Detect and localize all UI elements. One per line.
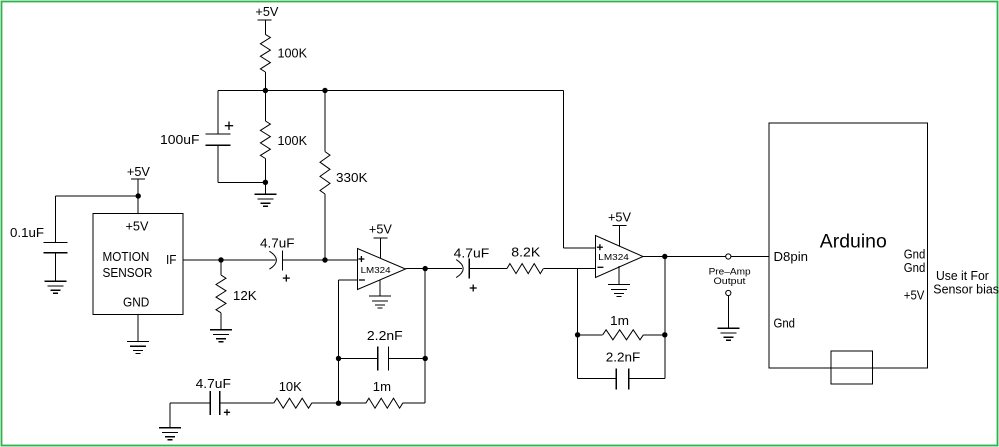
node fb2 left 1m junction bbox=[575, 332, 580, 337]
wire U1 ground stem bbox=[379, 280, 381, 296]
svg-text:100uF: 100uF bbox=[160, 132, 200, 147]
node fb2 right 1m junction bbox=[662, 332, 667, 337]
svg-text:MOTION: MOTION bbox=[103, 249, 150, 264]
svg-text:2.2nF: 2.2nF bbox=[606, 349, 641, 364]
svg-text:Gnd: Gnd bbox=[774, 315, 796, 330]
wire C6 to 8.2K bbox=[469, 268, 507, 270]
wire 1m2 row right bbox=[643, 334, 664, 336]
wire right vertical drop to op-amp U2 bbox=[562, 91, 564, 249]
svg-text:LM324: LM324 bbox=[598, 252, 629, 262]
terminal circle (output ground ref) bbox=[726, 290, 731, 295]
wire U2 output to terminal circle bbox=[643, 256, 726, 258]
wire 12K bottom stem bbox=[220, 313, 222, 330]
plus marker U1 bbox=[358, 256, 364, 262]
wire sensor gnd stem bbox=[137, 314, 139, 341]
resistor R5 10K bbox=[274, 398, 312, 408]
wire bus to 330K bbox=[324, 91, 326, 152]
wire bottom-left gnd stem bbox=[169, 403, 171, 428]
resistor R8 1m (U2 feedback) bbox=[603, 330, 644, 340]
node U2 output junction bbox=[662, 254, 667, 259]
node sensor supply junction bbox=[136, 193, 141, 198]
wire 8.2K to U2 - input bbox=[543, 268, 595, 270]
svg-text:100K: 100K bbox=[278, 133, 308, 148]
wire C3 to bias node bbox=[282, 259, 325, 261]
node divider bottom junction bbox=[263, 180, 268, 185]
svg-text:+5V: +5V bbox=[255, 4, 278, 19]
svg-text:8.2K: 8.2K bbox=[511, 245, 540, 260]
plus marker U2 bbox=[597, 244, 603, 250]
svg-text:4.7uF: 4.7uF bbox=[260, 235, 295, 250]
svg-text:Gnd: Gnd bbox=[904, 260, 926, 275]
ground (output ref) bbox=[717, 328, 739, 340]
wire top bus right bbox=[325, 90, 563, 92]
wire feedback left vertical (U1) bbox=[338, 280, 340, 403]
wire 1m2 row left bbox=[578, 334, 603, 336]
motion sensor box U3 bbox=[93, 214, 183, 315]
svg-text:4.7uF: 4.7uF bbox=[454, 245, 490, 260]
power terminal +5V (U2) bbox=[608, 210, 631, 246]
wire bus down to capacitor C1 bbox=[217, 91, 219, 135]
wire bus to R2 bbox=[264, 91, 266, 122]
wire top bus middle bbox=[265, 90, 325, 92]
ground (12K) bbox=[210, 330, 232, 342]
polarity plus of C1 bbox=[225, 122, 233, 130]
wire 12K top stem bbox=[220, 260, 222, 275]
svg-text:1m: 1m bbox=[610, 313, 629, 328]
wire terminal to Arduino D8pin bbox=[731, 256, 769, 258]
wire R3 down to input node bbox=[324, 194, 326, 260]
resistor R1 100K (top) bbox=[260, 34, 270, 72]
svg-text:1m: 1m bbox=[373, 379, 391, 394]
ground (U1) bbox=[369, 296, 391, 308]
svg-text:12K: 12K bbox=[233, 288, 257, 303]
wire C1 to divider bottom bbox=[218, 181, 265, 183]
wire C5 to 10K bbox=[220, 402, 274, 404]
wire output vertical down (U1 feedback) bbox=[424, 269, 426, 404]
wire output gnd stem bbox=[727, 296, 729, 329]
ground (U2) bbox=[608, 285, 630, 297]
wire junction into sensor box bbox=[137, 196, 139, 214]
svg-text:SENSOR: SENSOR bbox=[103, 265, 153, 280]
capacitor C5 4.7uF plates (bottom) bbox=[210, 391, 220, 415]
resistor R6 1m (U1 feedback) bbox=[366, 398, 403, 408]
wire bottom row: gnd corner to C5 bbox=[170, 402, 210, 404]
capacitor C6 4.7uF (interstage, polarized) bbox=[456, 259, 469, 279]
wire 1m to output vertical bbox=[403, 402, 426, 404]
wire 2.2nF2 row right bbox=[629, 378, 665, 380]
capacitor C3 4.7uF (coupling, polarized) bbox=[269, 250, 282, 270]
capacitor C2 0.1uF plates bbox=[44, 243, 68, 253]
minus marker U1 bbox=[359, 279, 365, 281]
power terminal +5V (U1) bbox=[369, 221, 392, 258]
svg-text:2.2nF: 2.2nF bbox=[367, 328, 403, 343]
svg-text:10K: 10K bbox=[279, 379, 302, 394]
svg-text:LM324: LM324 bbox=[361, 265, 391, 275]
svg-text:+5V: +5V bbox=[904, 288, 925, 303]
wire into + input of U2 bbox=[563, 247, 595, 249]
node fb left 2.2nF junction bbox=[336, 356, 341, 361]
svg-text:Output: Output bbox=[714, 276, 747, 286]
wire bottom node to 1m bbox=[339, 402, 366, 404]
svg-text:0.1uF: 0.1uF bbox=[10, 225, 44, 240]
wire bypass cap top stem bbox=[55, 196, 57, 243]
usb connector rectangle bbox=[831, 351, 873, 384]
wire R1 to bus bbox=[264, 72, 266, 91]
svg-text:+5V: +5V bbox=[126, 219, 149, 234]
wire top bus left bbox=[218, 90, 265, 92]
wire 2.2nF row right bbox=[389, 358, 426, 360]
node fb right 2.2nF junction bbox=[423, 356, 428, 361]
svg-text:4.7uF: 4.7uF bbox=[196, 376, 231, 391]
svg-text:Sensor bias: Sensor bias bbox=[933, 281, 999, 296]
resistor R7 8.2K bbox=[507, 264, 543, 274]
svg-text:+5V: +5V bbox=[608, 210, 631, 225]
power terminal +5V (top, R1) bbox=[255, 4, 278, 34]
wire U2 output feedback vertical bbox=[664, 257, 666, 379]
svg-text:100K: 100K bbox=[278, 45, 308, 60]
op-amp U1 LM324 bbox=[358, 249, 406, 290]
node bus-330K junction bbox=[322, 88, 327, 93]
svg-text:330K: 330K bbox=[336, 170, 368, 185]
wire 2.2nF2 row left bbox=[578, 378, 617, 380]
power terminal +5V (motion sensor) bbox=[127, 164, 150, 196]
ground (bypass cap) bbox=[45, 281, 67, 293]
capacitor C4 2.2nF plates bbox=[378, 347, 389, 371]
svg-text:GND: GND bbox=[123, 295, 149, 310]
resistor R4 12K bbox=[216, 275, 226, 313]
ground (divider) bbox=[254, 182, 276, 206]
wire R2 to ground node bbox=[264, 159, 266, 183]
wire 10K to bottom node bbox=[312, 402, 339, 404]
wire bias node to U1 + input bbox=[325, 259, 358, 261]
node U1 output junction bbox=[423, 266, 428, 271]
wire C2 bottom stem bbox=[55, 253, 57, 281]
wire 2.2nF row left bbox=[339, 358, 378, 360]
polarity plus of C3 bbox=[283, 275, 290, 282]
wire U1 output bbox=[406, 268, 463, 270]
svg-text:Arduino: Arduino bbox=[820, 232, 887, 253]
svg-text:D8pin: D8pin bbox=[774, 249, 809, 264]
svg-text:+5V: +5V bbox=[369, 221, 392, 236]
minus marker U2 bbox=[597, 266, 603, 268]
node bus-R1 junction bbox=[263, 88, 268, 93]
wire U2 feedback left vertical bbox=[577, 269, 579, 379]
wire IF output to 12K node bbox=[183, 259, 221, 261]
wire node to coupling cap C3 bbox=[221, 259, 276, 261]
resistor R3 330K bbox=[320, 152, 330, 194]
op-amp U2 LM324 bbox=[596, 236, 644, 278]
capacitor C7 2.2nF plates (U2 feedback) bbox=[616, 369, 629, 390]
node IF-12K junction bbox=[218, 257, 223, 262]
polarity plus of C5 bbox=[224, 409, 230, 415]
wire U1 - input bbox=[339, 279, 358, 281]
polarity plus of C6 bbox=[470, 285, 477, 292]
wire junction to bypass cap bbox=[56, 195, 139, 197]
svg-text:+5V: +5V bbox=[127, 164, 150, 179]
terminal circle (pre-amp output) bbox=[726, 254, 731, 259]
ground (bottom left) bbox=[159, 428, 181, 440]
wire C1 bottom stem bbox=[217, 145, 219, 182]
node bias junction (330K) bbox=[322, 257, 327, 262]
node bottom row junction bbox=[336, 401, 341, 406]
svg-text:IF: IF bbox=[166, 252, 177, 267]
resistor R2 100K (divider lower) bbox=[260, 121, 270, 159]
ground (motion sensor) bbox=[127, 341, 149, 353]
capacitor C1 100uF plates bbox=[206, 134, 231, 145]
svg-text:Pre–Amp: Pre–Amp bbox=[709, 266, 751, 276]
wire U2 ground stem bbox=[618, 266, 620, 285]
Arduino box bbox=[769, 123, 928, 368]
